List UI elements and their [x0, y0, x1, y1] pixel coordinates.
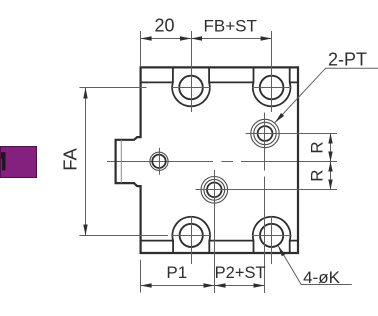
svg-text:FB+ST: FB+ST: [204, 17, 257, 36]
svg-text:P1: P1: [166, 263, 187, 282]
small hole on tab centerline: [150, 152, 168, 170]
bottom band line: [141, 240, 298, 242]
node: top-right hole centerlines: [252, 31, 292, 112]
node: center hole centerlines: [196, 170, 338, 293]
leader 2-PT: [275, 68, 378, 122]
wire: top extension line at plate left: [140, 31, 142, 67]
svg-text:P2+ST: P2+ST: [215, 264, 266, 282]
wire: top dimension line: [141, 38, 272, 40]
arrowhead of 4-øK leader: [278, 246, 285, 256]
port hole 2-PT: [251, 119, 279, 147]
hole bottom-left (øK): [180, 224, 203, 247]
node: small hole vertical centerline: [159, 148, 161, 175]
wire: FA dimension line: [85, 88, 87, 236]
wire: bottom extension line at plate left: [140, 260, 142, 293]
dimension FA: [79, 88, 168, 236]
arrowheads top dimension: [141, 36, 152, 40]
svg-text:4-øK: 4-øK: [303, 268, 341, 287]
hole bottom-right (øK): [260, 224, 283, 247]
boss bottom-left: [172, 217, 210, 253]
leader 4-øK: [278, 246, 351, 285]
svg-text:R: R: [307, 141, 326, 153]
hole top-left (øK): [179, 76, 203, 100]
node: bottom-left hole centerlines: [172, 216, 211, 264]
node: bottom-right hole centerlines: [252, 216, 292, 264]
dimension 20 / FB+ST: [141, 31, 272, 67]
wire: FA top extension: [79, 87, 146, 89]
dimension P1 / P2+ST: [141, 260, 265, 293]
dimension R / R: [330, 134, 332, 190]
wire: bottom dimension line: [141, 285, 265, 287]
svg-text:FA: FA: [60, 147, 81, 170]
tab inner chamfer line: [120, 140, 122, 183]
arrowhead of 2-PT leader: [275, 113, 284, 123]
boss top-right: [253, 67, 291, 106]
wire: R dimension line: [330, 134, 332, 190]
boss top-left: [172, 67, 210, 106]
hole top-right (øK): [260, 76, 284, 100]
centerlines crosshairs: [160, 31, 338, 293]
svg-text:R: R: [307, 169, 326, 181]
wire: FA bottom extension: [79, 235, 168, 237]
wire: small-hole horizontal centerline across plate to R dimension: [107, 161, 337, 163]
node: top-left hole centerlines: [171, 31, 211, 112]
boss bottom-right: [253, 217, 291, 253]
svg-text:2-PT: 2-PT: [328, 50, 367, 70]
top band line: [141, 81, 298, 83]
node: port hole centerlines: [246, 113, 338, 294]
plate outline with left tab: [116, 67, 298, 253]
svg-text:20: 20: [154, 16, 174, 36]
purple tag with clipped letter N at left edge: [0, 146, 37, 179]
center hole: [201, 177, 228, 204]
